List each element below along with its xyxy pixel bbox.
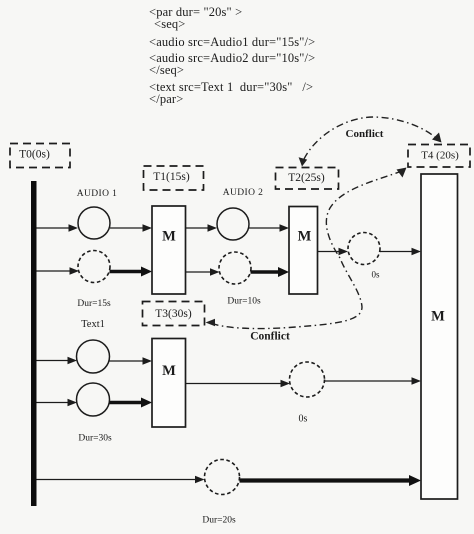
svg-text:Conflict: Conflict — [250, 331, 290, 343]
svg-text:M: M — [431, 309, 445, 325]
wire bar to place P6 — [37, 357, 78, 365]
svg-text:M: M — [298, 229, 312, 245]
place P5 0s (dashed circle) — [348, 233, 380, 265]
place P4 Audio2 duration (dashed circle) — [219, 252, 251, 284]
place P1 Audio1 (solid circle) — [78, 207, 110, 239]
place P6 Text1 (solid circle) — [77, 340, 110, 373]
wire U1 to place P3 — [186, 224, 218, 232]
svg-text:Dur=30s: Dur=30s — [78, 434, 112, 444]
place P8 0s lower (dashed circle) — [290, 362, 325, 397]
wire bar to place P1 — [37, 224, 79, 232]
svg-text:Dur=15s: Dur=15s — [77, 299, 111, 309]
svg-text:Dur=20s: Dur=20s — [202, 516, 236, 526]
transition U2 (T2) — [289, 207, 318, 295]
svg-text:T0(0s): T0(0s) — [19, 149, 50, 161]
svg-text:T3(30s): T3(30s) — [155, 308, 192, 320]
svg-text:0s: 0s — [371, 270, 380, 280]
transition U1 (T1) — [152, 206, 186, 294]
start bar T0 — [31, 181, 37, 506]
transition U4 (T4) — [421, 174, 458, 499]
place P3 Audio2 (solid circle) — [217, 208, 249, 240]
transition label box T0(0s) — [10, 144, 70, 168]
wire U3 to place P8 — [186, 380, 291, 388]
conflict arc T2 to T4 (dash-dot) — [299, 117, 442, 167]
transition U3 (T3) — [152, 339, 186, 428]
conflict arc T4 to T3 (dash-dot) — [206, 168, 407, 329]
wire P8 to transition U4 — [325, 377, 422, 385]
thick wire P9 to transition U4 — [240, 475, 422, 486]
thick wire P4 to transition U2 — [251, 267, 290, 277]
transition label box T3(30s) — [143, 302, 205, 326]
wire bar to place P2 — [37, 267, 80, 275]
svg-text:<audio src=Audio1 dur="15s"/>: <audio src=Audio1 dur="15s"/> — [149, 35, 315, 49]
wire bar to place P9 — [37, 476, 205, 484]
transition label box T2(25s) — [276, 168, 339, 190]
transition label box T1(15s) — [144, 166, 204, 190]
svg-text:0s: 0s — [299, 414, 308, 425]
svg-text:</seq>: </seq> — [149, 63, 184, 77]
svg-text:Conflict: Conflict — [346, 128, 384, 140]
place P7 Text1 duration (solid circle) — [77, 383, 110, 416]
wire P3 to transition U2 — [249, 224, 289, 232]
wire P6 to transition U3 — [110, 357, 153, 365]
wire P1 to transition U1 — [110, 224, 152, 232]
wire P5 to transition U4 — [380, 248, 421, 256]
transition label box T4(20s) — [408, 145, 470, 168]
wire U1 to place P4 — [186, 268, 220, 276]
place P2 Audio1 duration (dashed circle) — [78, 251, 110, 283]
SMIL code listing — [149, 5, 315, 106]
thick wire P2 to transition U1 — [110, 267, 153, 277]
wire bar to place P7 — [37, 399, 78, 407]
wire U2 to place P5 — [318, 248, 349, 256]
svg-text:Dur=10s: Dur=10s — [227, 297, 261, 307]
svg-text:T2(25s): T2(25s) — [288, 172, 325, 184]
thick wire P7 to transition U3 — [110, 398, 153, 408]
svg-text:AUDIO 2: AUDIO 2 — [223, 188, 264, 198]
svg-text:M: M — [162, 229, 176, 245]
svg-text:</par>: </par> — [149, 92, 183, 106]
svg-text:<seq>: <seq> — [154, 17, 186, 31]
place P9 Dur=20s (dashed circle) — [205, 460, 240, 495]
svg-text:Text1: Text1 — [81, 319, 105, 330]
svg-text:T1(15s): T1(15s) — [153, 171, 190, 183]
svg-text:T4 (20s): T4 (20s) — [421, 150, 459, 162]
svg-text:M: M — [162, 363, 176, 379]
svg-text:AUDIO 1: AUDIO 1 — [77, 189, 118, 199]
